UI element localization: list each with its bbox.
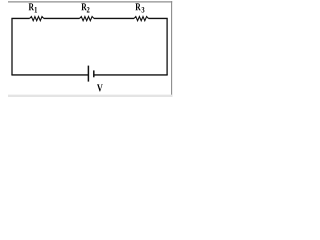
label V <box>97 84 103 91</box>
frame right border <box>171 1 173 97</box>
wire right side <box>166 18 168 74</box>
label R1 subscript 1 <box>35 7 37 12</box>
label R2 'R' <box>81 3 86 10</box>
label R3 'R' <box>135 3 140 10</box>
battery short plate <box>93 70 95 77</box>
wire bottom left of battery <box>11 74 88 76</box>
frame bottom border <box>8 95 172 97</box>
wire left side <box>11 18 13 74</box>
label R3 subscript 3 <box>142 7 145 13</box>
wire top-left segment <box>11 17 29 19</box>
frame top border <box>8 1 172 3</box>
wire between R1 and R2 <box>44 17 80 19</box>
battery long plate <box>87 66 89 82</box>
label R2 subscript 2 <box>87 7 90 12</box>
label R1 'R' <box>29 3 34 10</box>
wire after R3 <box>149 17 168 19</box>
resistor R1 <box>30 17 44 21</box>
resistor R2 <box>80 17 95 21</box>
wire bottom right of battery <box>94 74 167 76</box>
wire between R2 and R3 <box>94 17 134 19</box>
resistor R3 <box>134 17 149 21</box>
